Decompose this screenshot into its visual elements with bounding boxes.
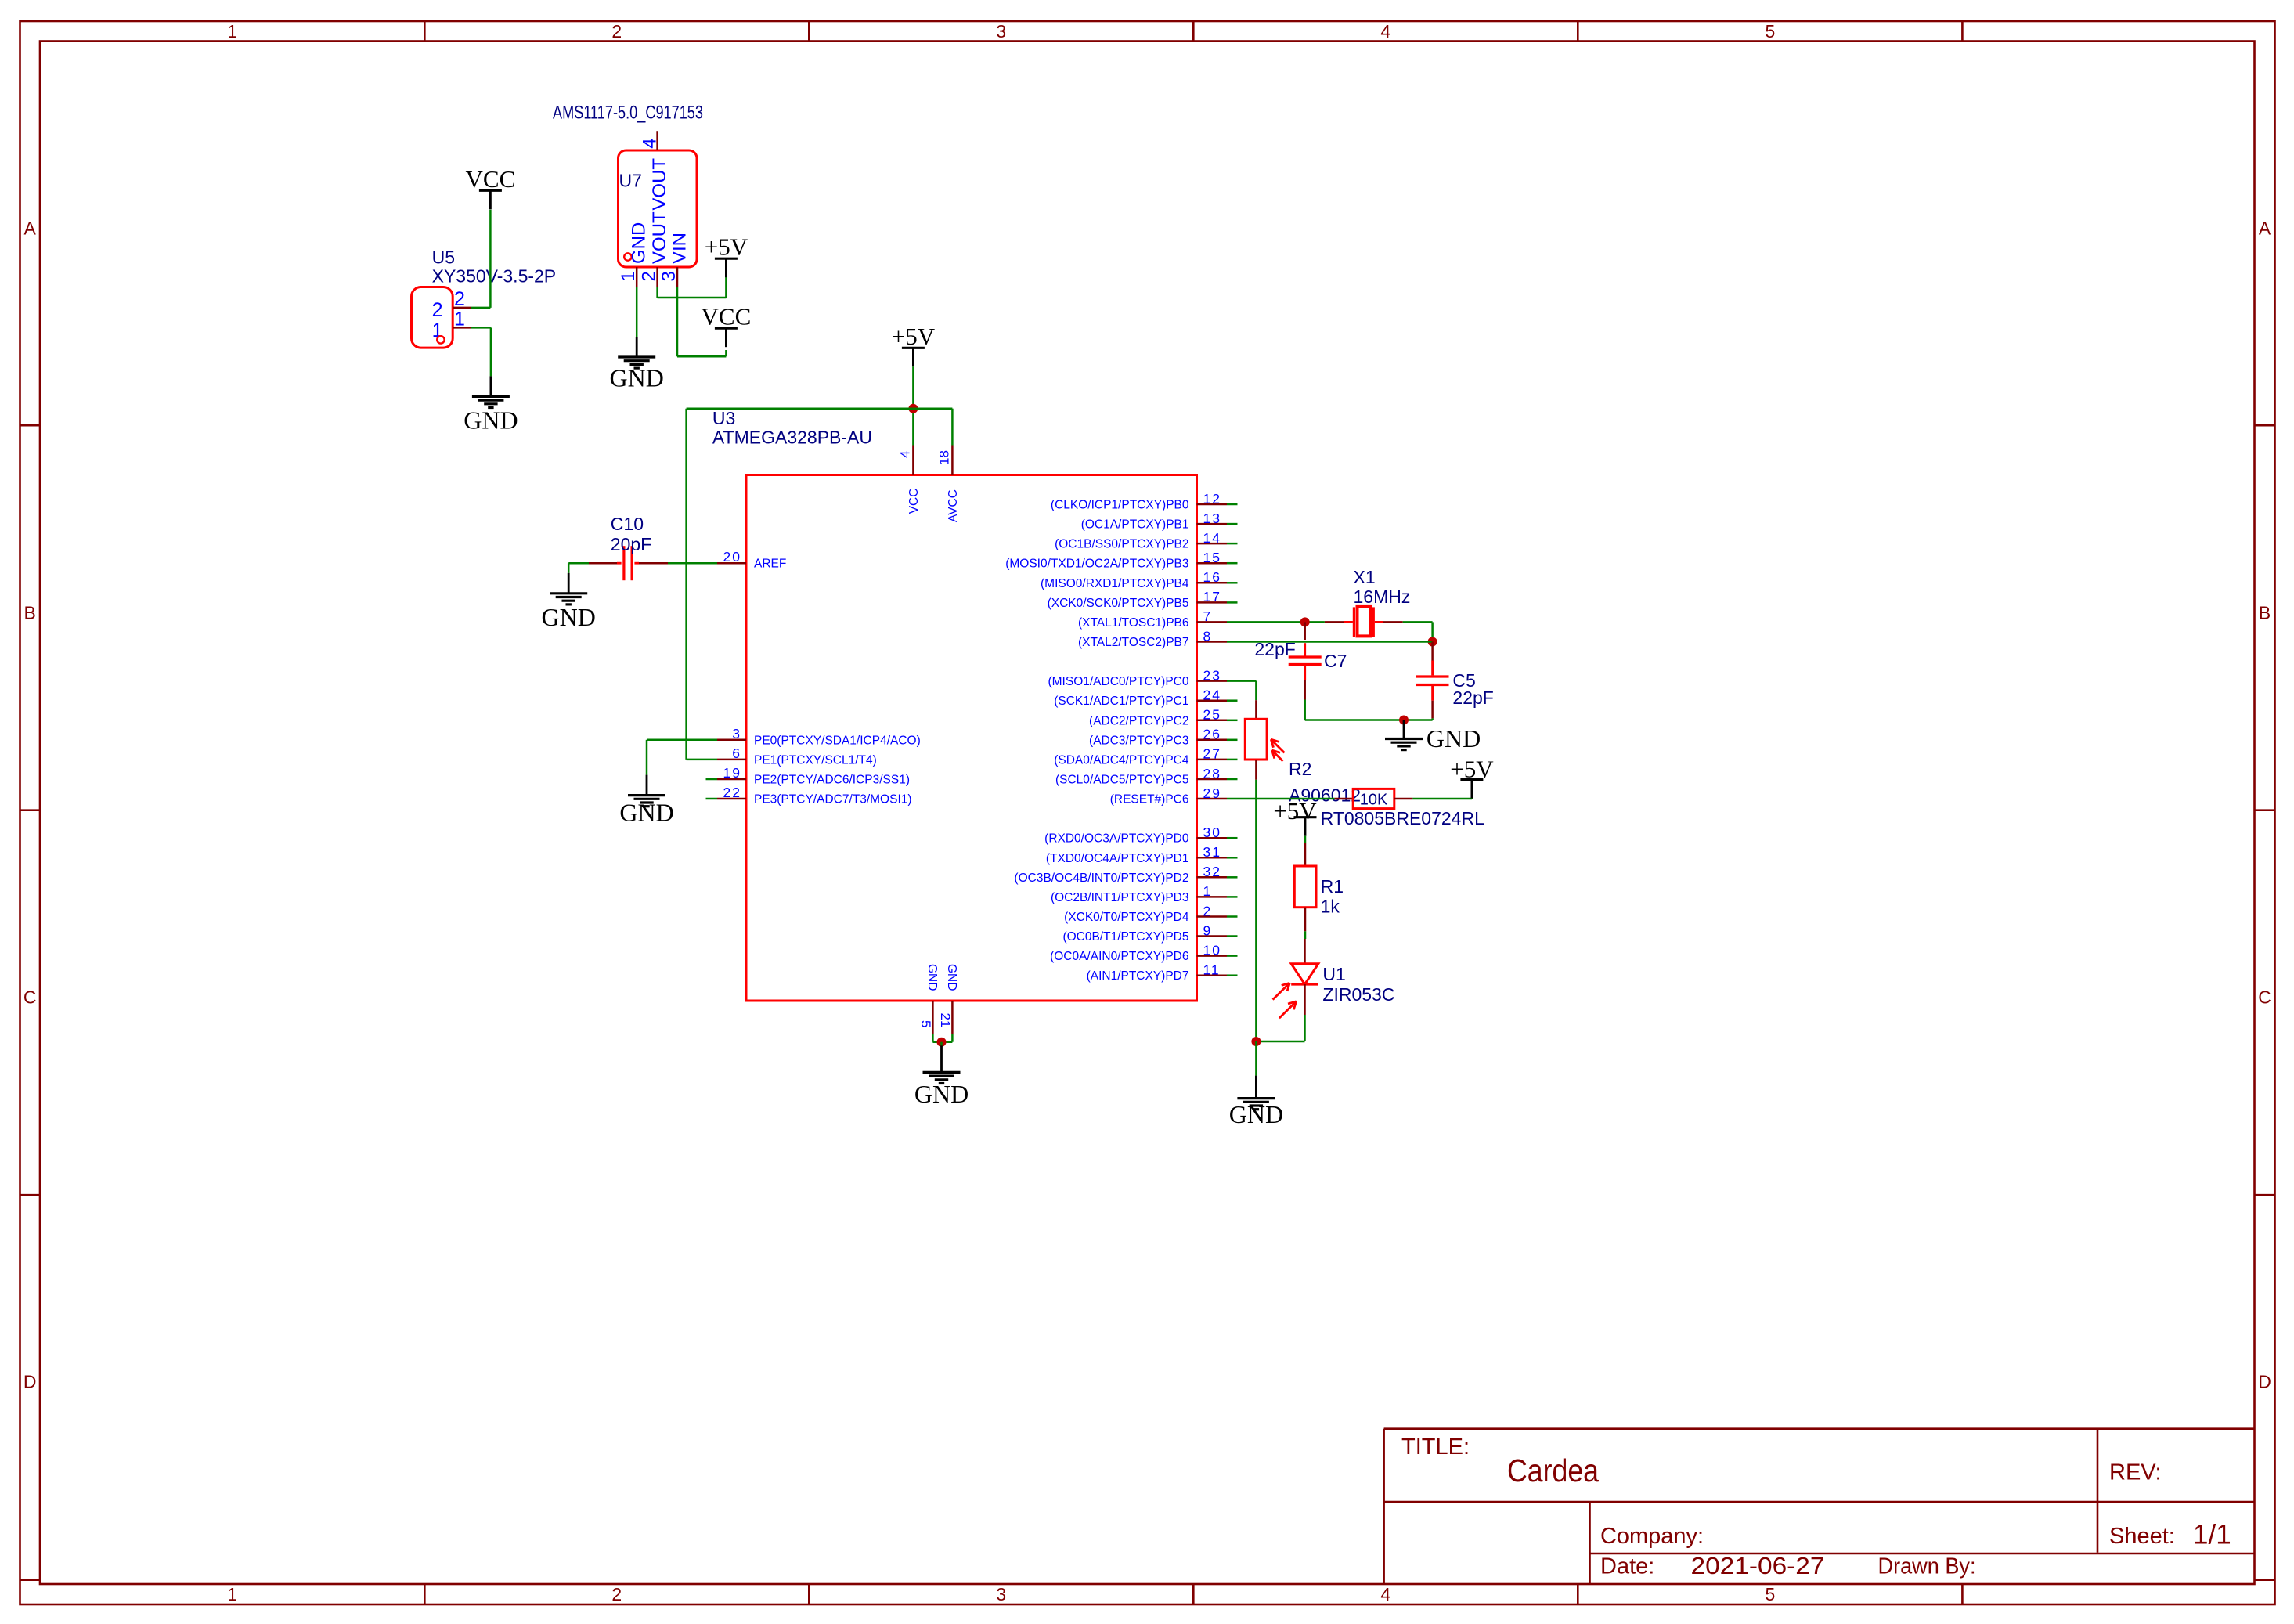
svg-text:24: 24 bbox=[1203, 687, 1221, 703]
svg-text:15: 15 bbox=[1203, 550, 1221, 565]
svg-text:GND: GND bbox=[542, 603, 596, 631]
junction dot +5V/VCC/AVCC bbox=[908, 404, 918, 413]
svg-text:ZIR053C: ZIR053C bbox=[1322, 984, 1394, 1005]
U3 left pin 6 PE1(PTCXY/SCL1/T4) bbox=[717, 759, 746, 761]
svg-text:Cardea: Cardea bbox=[1507, 1453, 1599, 1489]
frame row ticks right bbox=[2255, 424, 2275, 427]
svg-text:Company:: Company: bbox=[1600, 1524, 1704, 1549]
U3 right pin 29 (RESET#)PC6 bbox=[1197, 798, 1228, 800]
U7 pin 1 stub bbox=[636, 267, 638, 287]
svg-text:14: 14 bbox=[1203, 530, 1221, 546]
regulator U7 body bbox=[619, 150, 698, 267]
U3 right pin 25 (ADC2/PTCY)PC2 bbox=[1197, 720, 1228, 722]
svg-text:2: 2 bbox=[611, 21, 622, 42]
wire C7 to bottom rail bbox=[1304, 700, 1306, 720]
title block lines bbox=[1384, 1427, 2255, 1430]
ground GND (U7) bbox=[636, 337, 638, 356]
capacitor C7 bbox=[1304, 622, 1306, 640]
ground GND (LED rail) bbox=[1255, 1041, 1257, 1076]
svg-text:AVCC: AVCC bbox=[947, 489, 960, 522]
wire U3 pin23 to R2 bbox=[1227, 680, 1256, 682]
svg-text:21: 21 bbox=[938, 1013, 953, 1028]
svg-text:1: 1 bbox=[1203, 883, 1213, 899]
wire U7 pin1 to GND bbox=[636, 287, 638, 337]
svg-text:(ADC2/PTCY)PC2: (ADC2/PTCY)PC2 bbox=[1089, 714, 1188, 727]
wire +5V to U3 AVCC bbox=[913, 407, 952, 410]
svg-text:GND: GND bbox=[463, 406, 518, 435]
U3 right pin 28 (SCL0/ADC5/PTCY)PC5 bbox=[1197, 778, 1228, 781]
svg-text:1: 1 bbox=[227, 21, 237, 42]
svg-text:Drawn By:: Drawn By: bbox=[1878, 1554, 1976, 1579]
U3 right pin 32 (OC3B/OC4B/INT0/PTCXY)PD2 bbox=[1197, 876, 1228, 879]
U3 right pin 14 (OC1B/SS0/PTCXY)PB2 bbox=[1197, 543, 1228, 545]
U3 right pin 1 (OC2B/INT1/PTCXY)PD3 bbox=[1197, 896, 1228, 898]
svg-text:2: 2 bbox=[611, 1584, 622, 1604]
svg-text:PE3(PTCY/ADC7/T3/MOSI1): PE3(PTCY/ADC7/T3/MOSI1) bbox=[754, 793, 912, 807]
U5 pin 1 stub bbox=[453, 327, 471, 329]
U3 right pin 7 (XTAL1/TOSC1)PB6 bbox=[1197, 621, 1228, 623]
svg-text:25: 25 bbox=[1203, 707, 1221, 723]
svg-text:2: 2 bbox=[1203, 903, 1213, 918]
U3 right pin 9 (OC0B/T1/PTCXY)PD5 bbox=[1197, 935, 1228, 937]
wire +5V across to PE1 net bbox=[687, 407, 914, 410]
svg-text:5: 5 bbox=[1766, 1584, 1776, 1604]
svg-text:GND: GND bbox=[629, 222, 650, 264]
svg-text:22pF: 22pF bbox=[1452, 687, 1493, 708]
svg-text:(MOSI0/TXD1/OC2A/PTCXY)PB3: (MOSI0/TXD1/OC2A/PTCXY)PB3 bbox=[1005, 558, 1188, 571]
svg-text:B: B bbox=[2259, 603, 2271, 623]
frame row ticks left bbox=[20, 424, 41, 427]
U5 pin 2 stub bbox=[453, 307, 471, 309]
svg-text:U3: U3 bbox=[712, 408, 735, 428]
U3 right pin 15 (MOSI0/TXD1/OC2A/PTCXY)PB3 bbox=[1197, 562, 1228, 565]
connector U5 body bbox=[412, 287, 453, 348]
wire R1 to U1 bbox=[1304, 931, 1307, 939]
svg-text:26: 26 bbox=[1203, 727, 1221, 742]
svg-text:(XCK0/T0/PTCXY)PD4: (XCK0/T0/PTCXY)PD4 bbox=[1064, 911, 1189, 924]
svg-text:(SCL0/ADC5/PTCY)PC5: (SCL0/ADC5/PTCY)PC5 bbox=[1055, 774, 1189, 787]
U1 receiver arrows bbox=[1273, 983, 1290, 999]
wire C10 to GND bbox=[568, 562, 589, 565]
wire bottom rail C7-C5 bbox=[1305, 719, 1433, 721]
svg-text:(SCK1/ADC1/PTCY)PC1: (SCK1/ADC1/PTCY)PC1 bbox=[1054, 695, 1188, 708]
frame column ticks bottom bbox=[424, 1584, 426, 1604]
svg-text:11: 11 bbox=[1203, 962, 1221, 978]
U3 right pin 17 (XCK0/SCK0/PTCXY)PB5 bbox=[1197, 601, 1228, 604]
svg-text:U1: U1 bbox=[1322, 964, 1345, 984]
svg-text:20pF: 20pF bbox=[611, 534, 651, 554]
wire U3 pin7 to crystal bbox=[1227, 621, 1325, 623]
U3 left pin 3 PE0(PTCXY/SDA1/ICP4/ACO) bbox=[717, 739, 746, 742]
wire U7 pin2 to +5V bbox=[656, 287, 658, 298]
ground GND (U3 bottom) bbox=[940, 1042, 943, 1046]
ground GND (PE0/PE1) bbox=[646, 775, 648, 795]
U3 right pin 30 (RXD0/OC3A/PTCXY)PD0 bbox=[1197, 837, 1228, 839]
svg-text:22pF: 22pF bbox=[1254, 639, 1295, 659]
svg-text:10K: 10K bbox=[1360, 792, 1388, 809]
U3 left pin 20 AREF bbox=[717, 562, 746, 565]
svg-text:GND: GND bbox=[1229, 1100, 1283, 1128]
wire U5 pin1 to GND bbox=[471, 327, 491, 329]
svg-text:31: 31 bbox=[1203, 844, 1221, 860]
svg-text:16: 16 bbox=[1203, 569, 1221, 585]
svg-text:(OC0A/AIN0/PTCXY)PD6: (OC0A/AIN0/PTCXY)PD6 bbox=[1050, 950, 1188, 963]
U3 bottom pin 21 GND bbox=[951, 1001, 954, 1034]
MCU U3 body bbox=[746, 475, 1197, 1001]
wire U7 pin3 to VCC bbox=[676, 287, 679, 356]
svg-text:RT0805BRE0724RL: RT0805BRE0724RL bbox=[1321, 808, 1484, 828]
wire crystal to C5 branch bbox=[1403, 621, 1433, 623]
svg-text:+5V: +5V bbox=[705, 233, 748, 261]
ground GND (crystal) bbox=[1403, 720, 1405, 738]
svg-text:GND: GND bbox=[619, 799, 673, 827]
U7 pin1 marker circle bbox=[624, 253, 631, 260]
wire U5 pin2 to VCC bbox=[471, 307, 491, 309]
svg-text:GND: GND bbox=[1427, 724, 1481, 752]
svg-text:22: 22 bbox=[723, 785, 741, 800]
svg-text:REV:: REV: bbox=[2109, 1460, 2162, 1485]
svg-text:AREF: AREF bbox=[754, 558, 786, 571]
svg-text:ATMEGA328PB-AU: ATMEGA328PB-AU bbox=[712, 428, 872, 448]
svg-text:27: 27 bbox=[1203, 746, 1221, 762]
ground GND (C10) bbox=[568, 573, 570, 593]
U3 right pin 2 (XCK0/T0/PTCXY)PD4 bbox=[1197, 915, 1228, 918]
svg-text:VIN: VIN bbox=[669, 233, 691, 264]
svg-text:(AIN1/PTCXY)PD7: (AIN1/PTCXY)PD7 bbox=[1087, 969, 1189, 983]
svg-text:XY350V-3.5-2P: XY350V-3.5-2P bbox=[432, 265, 557, 286]
junction dot pin7/C7 bbox=[1300, 617, 1310, 626]
wire +5V to R1 bbox=[1304, 836, 1307, 843]
svg-text:Sheet:: Sheet: bbox=[2109, 1524, 2175, 1549]
svg-text:PE1(PTCXY/SCL1/T4): PE1(PTCXY/SCL1/T4) bbox=[754, 753, 877, 767]
svg-text:A: A bbox=[24, 218, 37, 239]
svg-text:(MISO0/RXD1/PTCXY)PB4: (MISO0/RXD1/PTCXY)PB4 bbox=[1041, 577, 1189, 590]
svg-text:(OC2B/INT1/PTCXY)PD3: (OC2B/INT1/PTCXY)PD3 bbox=[1051, 891, 1189, 904]
svg-text:32: 32 bbox=[1203, 864, 1221, 879]
svg-text:5: 5 bbox=[1766, 21, 1776, 42]
U3 right pin 23 (MISO1/ADC0/PTCY)PC0 bbox=[1197, 680, 1228, 682]
svg-text:4: 4 bbox=[1380, 1584, 1390, 1604]
svg-text:(XTAL2/TOSC2)PB7: (XTAL2/TOSC2)PB7 bbox=[1078, 636, 1189, 649]
junction dot pin8/C5 bbox=[1428, 637, 1437, 647]
U3 right pin 10 (OC0A/AIN0/PTCXY)PD6 bbox=[1197, 955, 1228, 957]
svg-text:(RXD0/OC3A/PTCXY)PD0: (RXD0/OC3A/PTCXY)PD0 bbox=[1044, 832, 1189, 846]
wire AREF to C10 bbox=[668, 562, 717, 565]
U3 left pin 22 PE3(PTCY/ADC7/T3/MOSI1) bbox=[717, 798, 746, 800]
U3 right pin 16 (MISO0/RXD1/PTCXY)PB4 bbox=[1197, 582, 1228, 584]
svg-text:20: 20 bbox=[723, 549, 741, 565]
wire PE0 to GND bbox=[647, 739, 717, 742]
U3 right pin 13 (OC1A/PTCXY)PB1 bbox=[1197, 523, 1228, 525]
svg-text:9: 9 bbox=[1203, 922, 1213, 938]
svg-text:10: 10 bbox=[1203, 942, 1221, 958]
svg-text:AMS1117-5.0_C917153: AMS1117-5.0_C917153 bbox=[553, 103, 703, 124]
U7 pin 4 stub bbox=[656, 131, 658, 150]
svg-text:R2: R2 bbox=[1289, 759, 1311, 779]
svg-text:2: 2 bbox=[432, 299, 443, 321]
svg-text:+5V: +5V bbox=[1273, 797, 1317, 825]
wire U1 to GND rail bbox=[1304, 1015, 1306, 1041]
svg-text:Date:: Date: bbox=[1600, 1554, 1654, 1579]
wire U3 pins 5,21 to GND bbox=[932, 1034, 934, 1042]
capacitor C5 bbox=[1431, 642, 1434, 661]
svg-text:(CLKO/ICP1/PTCXY)PB0: (CLKO/ICP1/PTCXY)PB0 bbox=[1051, 499, 1189, 512]
svg-text:4: 4 bbox=[639, 138, 660, 148]
svg-text:PE2(PTCY/ADC6/ICP3/SS1): PE2(PTCY/ADC6/ICP3/SS1) bbox=[754, 774, 910, 787]
junction dot bottom rail bbox=[1399, 716, 1409, 725]
svg-text:1k: 1k bbox=[1321, 897, 1340, 917]
svg-text:X1: X1 bbox=[1354, 567, 1376, 587]
svg-text:8: 8 bbox=[1203, 628, 1213, 644]
U3 right pin 8 (XTAL2/TOSC2)PB7 bbox=[1197, 641, 1228, 643]
svg-text:13: 13 bbox=[1203, 511, 1221, 526]
svg-text:(XTAL1/TOSC1)PB6: (XTAL1/TOSC1)PB6 bbox=[1078, 616, 1189, 630]
svg-text:12: 12 bbox=[1203, 491, 1221, 507]
svg-text:TITLE:: TITLE: bbox=[1401, 1435, 1470, 1460]
svg-text:VCC: VCC bbox=[702, 303, 752, 330]
wire U3 pin8 bbox=[1227, 641, 1433, 643]
svg-text:(SDA0/ADC4/PTCY)PC4: (SDA0/ADC4/PTCY)PC4 bbox=[1054, 753, 1189, 767]
svg-text:(RESET#)PC6: (RESET#)PC6 bbox=[1110, 793, 1189, 807]
R2 photo arrows bbox=[1271, 739, 1284, 752]
svg-text:D: D bbox=[23, 1372, 37, 1392]
wire C5 to bottom rail bbox=[1431, 718, 1434, 720]
U3 right pin 12 (CLKO/ICP1/PTCXY)PB0 bbox=[1197, 503, 1228, 506]
svg-text:29: 29 bbox=[1203, 785, 1221, 801]
U3 right pin 24 (SCK1/ADC1/PTCY)PC1 bbox=[1197, 699, 1228, 702]
crystal X1 bbox=[1325, 621, 1344, 623]
U3 right pin 11 (AIN1/PTCXY)PD7 bbox=[1197, 974, 1228, 976]
svg-text:D: D bbox=[2258, 1372, 2271, 1392]
svg-text:C: C bbox=[23, 987, 37, 1008]
LED U1 ZIR053C bbox=[1304, 939, 1306, 964]
svg-text:(OC1B/SS0/PTCXY)PB2: (OC1B/SS0/PTCXY)PB2 bbox=[1055, 538, 1188, 551]
U3 top pin 18 AVCC bbox=[951, 446, 954, 475]
U3 left pin 19 PE2(PTCY/ADC6/ICP3/SS1) bbox=[717, 778, 746, 781]
svg-text:3: 3 bbox=[996, 1584, 1006, 1604]
svg-text:A: A bbox=[2259, 218, 2271, 239]
svg-text:16MHz: 16MHz bbox=[1354, 586, 1411, 607]
U3 top pin 4 VCC bbox=[912, 446, 914, 475]
svg-text:VOUT: VOUT bbox=[649, 158, 670, 211]
svg-text:C7: C7 bbox=[1324, 651, 1347, 671]
svg-text:+5V: +5V bbox=[892, 323, 936, 350]
svg-text:R1: R1 bbox=[1321, 876, 1344, 897]
svg-text:1: 1 bbox=[227, 1584, 237, 1604]
U3 right pin 27 (SDA0/ADC4/PTCY)PC4 bbox=[1197, 759, 1228, 761]
svg-text:3: 3 bbox=[732, 726, 741, 742]
resistor R2 bbox=[1255, 700, 1257, 719]
svg-text:VOUT: VOUT bbox=[649, 211, 670, 264]
wire 10K to +5V bbox=[1412, 798, 1472, 800]
ground GND (U5) bbox=[490, 376, 492, 395]
svg-text:C10: C10 bbox=[611, 514, 644, 534]
svg-text:U7: U7 bbox=[619, 171, 642, 191]
svg-text:28: 28 bbox=[1203, 766, 1221, 781]
svg-text:(XCK0/SCK0/PTCXY)PB5: (XCK0/SCK0/PTCXY)PB5 bbox=[1048, 597, 1189, 610]
svg-text:(OC0B/T1/PTCXY)PD5: (OC0B/T1/PTCXY)PD5 bbox=[1062, 930, 1188, 944]
svg-text:(MISO1/ADC0/PTCY)PC0: (MISO1/ADC0/PTCY)PC0 bbox=[1048, 675, 1188, 688]
svg-text:GND: GND bbox=[914, 1080, 968, 1108]
svg-text:3: 3 bbox=[996, 21, 1006, 42]
svg-text:B: B bbox=[24, 603, 36, 623]
resistor R1 bbox=[1304, 843, 1307, 866]
wire U3 pin29 to 10K bbox=[1227, 798, 1335, 800]
svg-text:1/1: 1/1 bbox=[2193, 1520, 2231, 1550]
svg-text:7: 7 bbox=[1203, 608, 1213, 624]
capacitor C10 bbox=[639, 562, 668, 565]
svg-text:C: C bbox=[2258, 987, 2271, 1008]
svg-text:4: 4 bbox=[1380, 21, 1390, 42]
frame column ticks top bbox=[424, 21, 426, 42]
svg-text:5: 5 bbox=[918, 1020, 933, 1027]
wire R2 to GND rail bbox=[1255, 780, 1257, 1041]
svg-text:VCC: VCC bbox=[466, 165, 516, 193]
svg-text:GND: GND bbox=[945, 964, 958, 991]
svg-text:23: 23 bbox=[1203, 667, 1221, 683]
svg-text:17: 17 bbox=[1203, 589, 1221, 604]
svg-text:PE0(PTCXY/SDA1/ICP4/ACO): PE0(PTCXY/SDA1/ICP4/ACO) bbox=[754, 734, 921, 747]
svg-text:(ADC3/PTCY)PC3: (ADC3/PTCY)PC3 bbox=[1089, 734, 1188, 747]
U5 pin1 marker circle bbox=[437, 336, 444, 343]
svg-text:U5: U5 bbox=[432, 247, 455, 268]
resistor 10K RT0805BRE0724RL bbox=[1335, 798, 1354, 800]
svg-text:18: 18 bbox=[937, 450, 952, 465]
U3 bottom pin 5 GND bbox=[932, 1001, 934, 1034]
svg-text:19: 19 bbox=[723, 765, 741, 781]
junction dot U3 ground bbox=[937, 1038, 947, 1047]
U3 right pin 31 (TXD0/OC4A/PTCXY)PD1 bbox=[1197, 857, 1228, 859]
U3 right pin 26 (ADC3/PTCY)PC3 bbox=[1197, 739, 1228, 742]
svg-text:VCC: VCC bbox=[907, 489, 921, 514]
svg-text:GND: GND bbox=[610, 364, 664, 392]
svg-text:GND: GND bbox=[925, 964, 939, 991]
junction dot LED/R2 ground rail bbox=[1251, 1037, 1261, 1046]
U7 pin 3 stub bbox=[676, 267, 679, 287]
svg-text:6: 6 bbox=[732, 745, 741, 761]
svg-text:(OC1A/PTCXY)PB1: (OC1A/PTCXY)PB1 bbox=[1081, 518, 1189, 532]
svg-text:(OC3B/OC4B/INT0/PTCXY)PD2: (OC3B/OC4B/INT0/PTCXY)PD2 bbox=[1014, 872, 1188, 885]
svg-text:4: 4 bbox=[898, 451, 913, 458]
U7 pin 2 stub bbox=[656, 267, 658, 287]
svg-text:30: 30 bbox=[1203, 825, 1221, 840]
svg-text:(TXD0/OC4A/PTCXY)PD1: (TXD0/OC4A/PTCXY)PD1 bbox=[1046, 852, 1189, 865]
svg-text:2021-06-27: 2021-06-27 bbox=[1691, 1552, 1825, 1579]
wire +5V to U3 VCC bbox=[912, 366, 914, 445]
